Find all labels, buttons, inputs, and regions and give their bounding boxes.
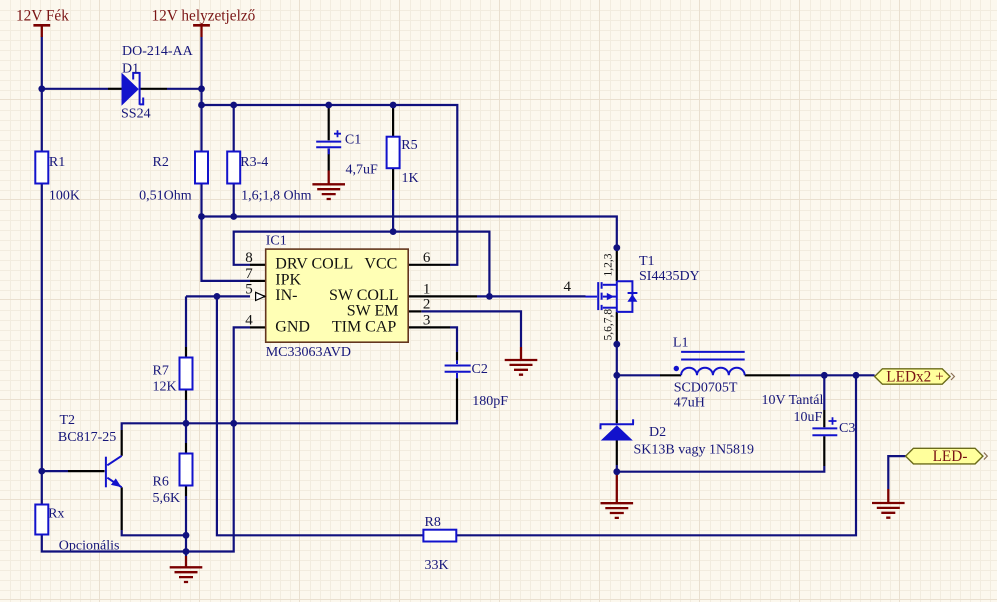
pin 6 lead	[408, 264, 450, 266]
svg-text:2: 2	[423, 297, 431, 313]
lead L1 left	[660, 374, 681, 376]
svg-text:1: 1	[423, 282, 431, 298]
svg-text:MC33063AVD: MC33063AVD	[266, 345, 351, 360]
wire 12V rail to VCC pin 6	[202, 105, 458, 265]
lead C1 bottom	[328, 149, 330, 171]
junction emitter ground node	[183, 532, 190, 539]
junction D2 anode node	[613, 468, 620, 475]
svg-text:T2: T2	[60, 413, 76, 428]
lead D1 anode black	[108, 88, 122, 90]
ground at IC pin 2	[505, 347, 538, 375]
svg-text:1,2,3: 1,2,3	[603, 253, 615, 276]
pin 7 lead	[250, 280, 266, 282]
svg-text:VCC: VCC	[364, 256, 397, 273]
pin 8 lead	[250, 264, 266, 266]
lead R6 top	[185, 443, 187, 454]
wire R1 bottom down to Rx	[41, 184, 43, 505]
wire pin 3 to C2	[450, 327, 457, 352]
svg-text:LED-: LED-	[933, 448, 968, 465]
ground under D2	[601, 474, 634, 518]
pin 5 lead	[255, 295, 266, 297]
svg-text:R7: R7	[153, 364, 169, 379]
svg-text:C2: C2	[472, 362, 488, 377]
wire R5 bottom	[392, 190, 394, 232]
svg-text:3: 3	[423, 312, 431, 328]
wire switch node to L1	[617, 374, 660, 376]
svg-text:12V Fék: 12V Fék	[16, 8, 69, 25]
lead C3 bottom	[823, 436, 825, 466]
lead R7 top	[185, 347, 187, 358]
svg-text:R5: R5	[401, 138, 417, 153]
lead D1 cathode black	[140, 88, 167, 90]
wire T2 base	[42, 470, 68, 472]
svg-text:4: 4	[564, 279, 572, 295]
capacitor C1	[316, 130, 341, 154]
lead T2 emitter	[121, 487, 123, 530]
wire IN- horizontal	[186, 295, 250, 297]
lead D2 top	[616, 410, 618, 423]
junction GND wire crossing	[230, 420, 237, 427]
lead C2 top	[456, 352, 458, 360]
lead C2 bottom	[456, 378, 458, 420]
lead T1 drain top	[616, 248, 618, 282]
lead L1 right	[745, 374, 790, 376]
svg-text:T1: T1	[639, 254, 655, 269]
power port 12V helyzetjelzo	[193, 25, 210, 37]
svg-text:R6: R6	[153, 475, 169, 490]
svg-text:DO-214-AA: DO-214-AA	[122, 44, 194, 59]
wire 12V Fek vertical to R1	[41, 37, 43, 152]
junction 12V rail at R3-4	[230, 102, 237, 109]
lead R5 top	[392, 105, 394, 137]
svg-text:Rx: Rx	[48, 507, 64, 522]
svg-text:10V Tantál: 10V Tantál	[762, 393, 824, 408]
ground bottom left	[170, 556, 203, 582]
port LEDx2 +	[875, 369, 955, 384]
wire Rx bottom to GND pin 4 run	[42, 327, 250, 551]
wire T2 emitter to ground node	[122, 530, 186, 535]
ground under C1	[312, 171, 345, 200]
svg-text:R8: R8	[425, 515, 441, 530]
svg-text:12V helyzetjelző: 12V helyzetjelző	[152, 8, 256, 25]
svg-text:4,7uF: 4,7uF	[346, 163, 379, 178]
pin 3 lead	[408, 326, 450, 328]
svg-text:1,6;1,8 Ohm: 1,6;1,8 Ohm	[241, 189, 312, 204]
svg-text:33K: 33K	[425, 558, 449, 573]
junction D1 anode node	[38, 85, 45, 92]
wire sense rail to T1 source	[202, 217, 617, 248]
capacitor C3	[812, 417, 837, 435]
diode D1 SS24	[122, 72, 144, 106]
svg-text:8: 8	[245, 250, 253, 266]
lead C1 top	[328, 105, 330, 140]
resistor R8	[423, 530, 456, 542]
ground under LED-	[872, 489, 905, 518]
junction switch node	[613, 372, 620, 379]
svg-text:LEDx2 +: LEDx2 +	[886, 369, 943, 386]
wire pin 1 to T1 gate	[477, 295, 586, 297]
lead D2 bottom	[616, 441, 618, 466]
svg-text:100K: 100K	[49, 189, 80, 204]
lead R6 bottom	[185, 486, 187, 497]
svg-text:IN-: IN-	[275, 287, 297, 304]
junction 12V rail at R2	[198, 102, 205, 109]
junction pin1 node	[486, 293, 493, 300]
svg-text:R2: R2	[153, 155, 169, 170]
junction ground wire node	[183, 548, 190, 555]
resistor R3-4	[227, 152, 240, 184]
svg-text:180pF: 180pF	[472, 394, 508, 409]
svg-text:10uF: 10uF	[794, 410, 823, 425]
wire R3-4 bottom	[233, 184, 235, 217]
power port 12V Fek	[33, 25, 50, 37]
svg-text:1K: 1K	[402, 171, 419, 186]
resistor R6	[180, 454, 193, 486]
wire R7 bottom to R6 top	[185, 400, 187, 443]
svg-text:GND: GND	[275, 318, 310, 335]
svg-text:IC1: IC1	[266, 234, 287, 249]
svg-text:D1: D1	[122, 62, 139, 77]
inductor L1	[674, 352, 745, 375]
junction R7 R6 node	[183, 420, 190, 427]
wire port LED- to ground	[888, 456, 905, 489]
resistor R5	[387, 137, 400, 169]
svg-text:SW EM: SW EM	[347, 302, 399, 319]
junction output rail at R8	[853, 372, 860, 379]
pin 2 lead	[408, 310, 421, 312]
wire pin 2 to ground	[421, 311, 521, 347]
junction 12V rail at C1	[325, 102, 332, 109]
port LED-	[906, 448, 988, 464]
lead R7 bottom	[185, 390, 187, 401]
resistor Rx	[35, 505, 48, 535]
junction output rail at C3	[821, 372, 828, 379]
wire R3-4 top	[233, 105, 235, 152]
wire 12V helyzetjelzo vertical to R2	[200, 37, 202, 152]
pin 4 lead	[250, 326, 266, 328]
svg-text:BC817-25: BC817-25	[58, 430, 116, 445]
svg-text:SS24: SS24	[121, 106, 151, 121]
diode D2 SK13B	[600, 419, 634, 440]
junction T1 drain	[613, 341, 620, 348]
pin 1 lead	[408, 295, 477, 297]
junction T2 base node	[38, 468, 45, 475]
wire R8 right to output rail	[456, 375, 856, 535]
wire L1 to port LEDx2	[790, 374, 875, 376]
svg-text:DRV COLL: DRV COLL	[275, 256, 353, 273]
resistor R7	[180, 358, 193, 390]
svg-text:4: 4	[245, 313, 253, 329]
svg-text:C1: C1	[345, 133, 361, 148]
wire D1 cathode	[167, 88, 202, 90]
junction IN- branch	[214, 293, 221, 300]
wire D1 anode	[42, 88, 108, 90]
wire pin 8 to SW COLL rail	[234, 232, 490, 297]
ic IC1 MC33063AVD body	[266, 249, 409, 342]
lead T2 base	[68, 470, 105, 472]
capacitor C2	[445, 360, 471, 378]
svg-text:SCD0705T: SCD0705T	[674, 380, 738, 395]
junction R5 bottom	[390, 228, 397, 235]
transistor T1 SI4435DY	[586, 281, 638, 312]
svg-text:TIM CAP: TIM CAP	[332, 318, 397, 335]
svg-text:C3: C3	[839, 421, 855, 436]
svg-text:5,6,7,8: 5,6,7,8	[603, 309, 615, 341]
wire R2 bottom to pin 7	[202, 184, 251, 281]
svg-text:R3-4: R3-4	[240, 155, 268, 170]
svg-text:5,6K: 5,6K	[153, 491, 181, 506]
junction D1 cathode node	[198, 85, 205, 92]
svg-text:Opcionális: Opcionális	[59, 539, 120, 554]
svg-text:L1: L1	[673, 336, 689, 351]
resistor R1	[35, 152, 48, 184]
wire R6 bottom to ground	[185, 496, 187, 556]
junction sense rail at R2	[198, 213, 205, 220]
wire IN- to R7	[185, 296, 187, 347]
pin 5 input arrow	[256, 292, 265, 300]
svg-text:D2: D2	[649, 425, 666, 440]
wire D2 anode to ground stub	[616, 472, 618, 474]
wire C3 bottom to D2 anode node	[617, 465, 825, 472]
lead T1 drain bottom	[616, 312, 618, 344]
wire C3 top	[823, 375, 825, 410]
lead R5 bottom	[392, 168, 394, 190]
svg-text:0,51Ohm: 0,51Ohm	[139, 189, 192, 204]
wire T1 drain down to D2	[616, 344, 618, 410]
svg-text:12K: 12K	[153, 380, 177, 395]
svg-text:SI4435DY: SI4435DY	[639, 269, 700, 284]
junction sense rail at R3-4	[230, 213, 237, 220]
svg-text:5: 5	[245, 282, 253, 298]
resistor R2	[195, 152, 208, 184]
svg-text:7: 7	[245, 266, 253, 282]
svg-text:6: 6	[423, 250, 431, 266]
wire C2 bottom to T2 collector	[122, 420, 457, 430]
svg-text:SK13B vagy 1N5819: SK13B vagy 1N5819	[634, 443, 755, 458]
svg-text:IPK: IPK	[275, 272, 301, 289]
lead T2 collector	[121, 430, 123, 456]
svg-text:47uH: 47uH	[674, 395, 705, 410]
junction T1 source	[613, 244, 620, 251]
lead C3 top	[823, 410, 825, 427]
junction 12V rail at R5	[390, 102, 397, 109]
transistor T2 BC817-25	[106, 456, 122, 488]
svg-text:R1: R1	[49, 155, 65, 170]
wire IN- branch down to R8	[217, 296, 424, 535]
